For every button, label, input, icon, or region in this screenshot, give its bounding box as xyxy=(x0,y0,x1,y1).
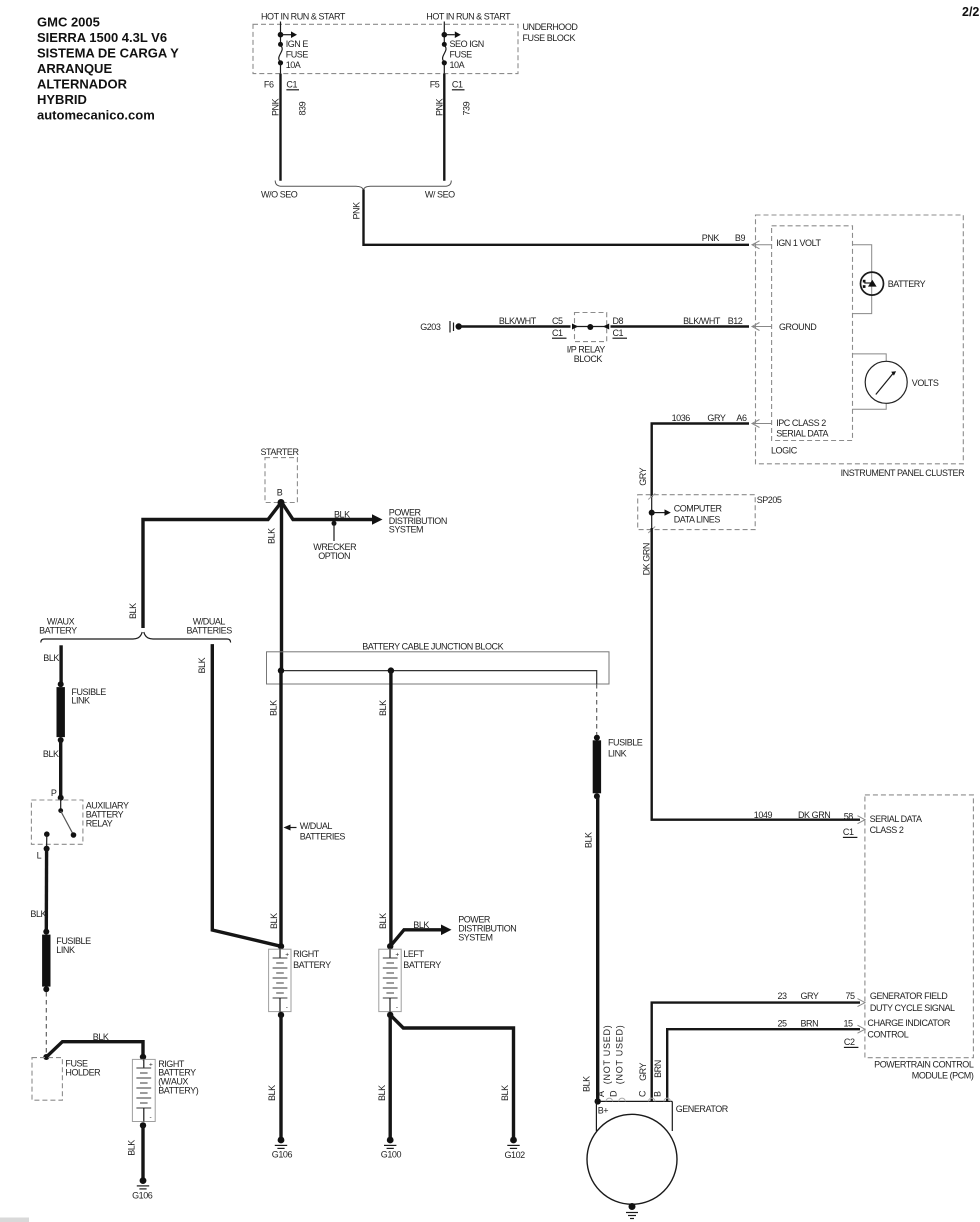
ground G102 xyxy=(505,1137,526,1160)
svg-text:D8: D8 xyxy=(613,316,624,326)
svg-text:C2: C2 xyxy=(844,1037,855,1047)
svg-text:10A: 10A xyxy=(286,60,301,70)
left battery BT2 xyxy=(379,943,441,1018)
svg-text:L: L xyxy=(37,850,42,860)
svg-text:BLK/WHT: BLK/WHT xyxy=(499,316,537,326)
svg-text:ALTERNADOR: ALTERNADOR xyxy=(37,76,128,91)
svg-text:BRN: BRN xyxy=(653,1060,663,1078)
svg-text:VOLTS: VOLTS xyxy=(912,378,939,388)
svg-text:G106: G106 xyxy=(132,1190,153,1200)
svg-text:LINK: LINK xyxy=(608,749,627,759)
svg-text:LINK: LINK xyxy=(56,945,75,955)
svg-text:IGN E: IGN E xyxy=(286,39,309,49)
wire 25 BRN 15 charge indicator control xyxy=(667,1018,951,1101)
auxiliary battery relay K1 xyxy=(31,798,129,845)
svg-text:1049: 1049 xyxy=(754,810,773,820)
ground G203 xyxy=(420,321,462,333)
ground G100 xyxy=(381,1137,402,1160)
pin F6 / connector C1 xyxy=(264,79,299,90)
dashed wire junction block to fusible link xyxy=(596,684,598,735)
svg-text:F5: F5 xyxy=(430,79,440,89)
svg-text:F6: F6 xyxy=(264,79,274,89)
svg-text:BATTERY: BATTERY xyxy=(888,279,926,289)
svg-text:PNK: PNK xyxy=(702,233,720,243)
svg-text:OPTION: OPTION xyxy=(318,551,350,561)
svg-text:DUTY CYCLE SIGNAL: DUTY CYCLE SIGNAL xyxy=(870,1003,955,1013)
wire PNK to instrument cluster xyxy=(351,190,749,245)
svg-text:GMC 2005: GMC 2005 xyxy=(37,14,100,29)
pin F5 / connector C1 xyxy=(430,79,465,90)
svg-text:CHARGE INDICATOR: CHARGE INDICATOR xyxy=(867,1018,950,1028)
svg-text:PNK: PNK xyxy=(271,98,281,116)
svg-text:25: 25 xyxy=(778,1019,788,1029)
svg-text:C1: C1 xyxy=(286,79,297,89)
generator case ground xyxy=(626,1203,638,1219)
label W/DUAL BATTERIES with arrow xyxy=(284,821,346,841)
wire BLK left battery to ground G102 xyxy=(390,1015,513,1140)
svg-text:HOT IN RUN & START: HOT IN RUN & START xyxy=(261,12,346,22)
svg-text:BLK: BLK xyxy=(334,510,350,520)
ground G106 xyxy=(272,1137,293,1160)
pin B9 input arrow IGN 1 VOLT xyxy=(752,238,821,249)
wire volts gauge to logic xyxy=(853,403,887,409)
svg-text:G106: G106 xyxy=(272,1150,293,1160)
svg-text:W/DUAL: W/DUAL xyxy=(300,821,333,831)
svg-text:SISTEMA DE CARGA Y: SISTEMA DE CARGA Y xyxy=(37,45,179,60)
fusible link F3 xyxy=(593,735,643,800)
svg-text:BLOCK: BLOCK xyxy=(574,354,603,364)
volts gauge xyxy=(865,361,939,403)
svg-text:BLK: BLK xyxy=(126,1140,136,1156)
powertrain control module box xyxy=(865,795,974,1081)
svg-text:BLK: BLK xyxy=(269,913,279,929)
wire BLK fusible link to generator B+ xyxy=(584,796,598,1101)
svg-text:10A: 10A xyxy=(450,60,465,70)
wrecker option tap xyxy=(313,521,357,561)
svg-text:G102: G102 xyxy=(505,1150,526,1160)
svg-text:ARRANQUE: ARRANQUE xyxy=(37,61,112,76)
svg-text:LEFT: LEFT xyxy=(403,949,424,959)
instrument panel cluster outer box xyxy=(756,215,966,478)
svg-text:BLK: BLK xyxy=(500,1085,510,1101)
svg-text:BLK: BLK xyxy=(268,700,278,716)
svg-text:W/O SEO: W/O SEO xyxy=(261,190,298,200)
splice SP205 computer data lines box xyxy=(638,494,782,534)
wire logic to battery lamp xyxy=(853,245,872,314)
svg-text:W/ SEO: W/ SEO xyxy=(425,190,455,200)
wire 1036 GRY to A6 xyxy=(638,413,749,497)
generator U1 xyxy=(587,1098,729,1204)
svg-text:STARTER: STARTER xyxy=(261,447,300,457)
svg-text:839: 839 xyxy=(298,101,308,115)
svg-text:DK GRN: DK GRN xyxy=(642,543,652,575)
label W/AUX BATTERY xyxy=(39,617,77,636)
svg-text:SERIAL DATA: SERIAL DATA xyxy=(776,429,828,439)
wire BLK/WHT G203 to I/P relay block xyxy=(459,316,571,338)
svg-text:(NOT USED): (NOT USED) xyxy=(602,1024,612,1084)
right battery (w/aux battery) BT3 xyxy=(132,1054,198,1129)
svg-text:BLK: BLK xyxy=(267,1085,277,1101)
svg-text:FUSE BLOCK: FUSE BLOCK xyxy=(523,33,576,43)
svg-text:BLK: BLK xyxy=(43,653,59,663)
svg-text:C: C xyxy=(637,1090,647,1097)
svg-text:BLK: BLK xyxy=(378,913,388,929)
svg-text:15: 15 xyxy=(844,1019,854,1029)
svg-text:SEO IGN: SEO IGN xyxy=(450,39,484,49)
svg-text:GRY: GRY xyxy=(638,1062,648,1080)
svg-text:BLK: BLK xyxy=(128,603,138,619)
wire PNK 839 xyxy=(271,74,308,181)
svg-text:2/2: 2/2 xyxy=(962,5,979,19)
svg-text:LINK: LINK xyxy=(71,696,90,706)
wire BLK left battery to ground G100 xyxy=(377,1015,390,1140)
svg-text:SERIAL DATA: SERIAL DATA xyxy=(870,814,922,824)
wire BLK w/dual branch xyxy=(197,644,281,946)
wire PNK 739 xyxy=(434,74,471,181)
svg-text:IGN 1 VOLT: IGN 1 VOLT xyxy=(776,238,821,248)
wire starter B to power distribution xyxy=(282,502,375,520)
svg-text:BATTERY: BATTERY xyxy=(403,960,441,970)
svg-text:CLASS 2: CLASS 2 xyxy=(870,825,904,835)
svg-text:RIGHT: RIGHT xyxy=(293,949,320,959)
svg-text:FUSIBLE: FUSIBLE xyxy=(608,738,643,748)
svg-text:BLK: BLK xyxy=(30,909,46,919)
svg-text:BLK/WHT: BLK/WHT xyxy=(683,316,721,326)
svg-text:A6: A6 xyxy=(736,413,747,423)
fusible link F2 xyxy=(42,929,91,993)
wire starter B to left branch xyxy=(143,502,282,628)
svg-text:1036: 1036 xyxy=(672,413,691,423)
svg-text:58: 58 xyxy=(844,811,854,821)
wire BLK junction block to left battery xyxy=(378,671,391,947)
svg-text:DK GRN: DK GRN xyxy=(798,810,830,820)
terminal L / wire BLK down xyxy=(30,834,49,931)
battery indicator lamp xyxy=(861,272,926,295)
svg-text:SP205: SP205 xyxy=(757,495,782,505)
svg-text:23: 23 xyxy=(778,991,788,1001)
svg-text:-: - xyxy=(150,1114,152,1121)
svg-text:-: - xyxy=(396,1004,398,1011)
wire BLK w/aux branch xyxy=(43,645,61,684)
wire BLK starter down to junction block xyxy=(267,502,282,671)
label W/DUAL BATTERIES xyxy=(187,617,233,636)
wire BLK to relay xyxy=(43,740,64,801)
fuse F6 IGN E FUSE 10A xyxy=(278,22,309,74)
svg-text:BLK: BLK xyxy=(377,1085,387,1101)
svg-text:BLK: BLK xyxy=(197,657,207,673)
svg-text:GRY: GRY xyxy=(638,467,648,485)
svg-text:CONTROL: CONTROL xyxy=(867,1030,908,1040)
svg-text:DATA LINES: DATA LINES xyxy=(674,515,721,525)
svg-text:B: B xyxy=(277,487,283,497)
svg-text:G203: G203 xyxy=(420,322,441,332)
wire BLK fuse holder to aux battery xyxy=(46,1032,143,1057)
svg-text:IPC CLASS 2: IPC CLASS 2 xyxy=(776,418,826,428)
svg-text:-: - xyxy=(286,1004,288,1011)
svg-text:HOLDER: HOLDER xyxy=(65,1068,101,1078)
svg-text:UNDERHOOD: UNDERHOOD xyxy=(523,22,579,32)
scan artifact bottom-left xyxy=(0,1218,29,1222)
svg-text:C1: C1 xyxy=(552,328,563,338)
svg-text:B: B xyxy=(652,1091,662,1097)
svg-text:BLK: BLK xyxy=(93,1032,109,1042)
svg-text:BATTERY: BATTERY xyxy=(39,626,77,636)
wire DK GRN to PCM serial data xyxy=(642,528,866,837)
svg-text:LOGIC: LOGIC xyxy=(771,446,798,456)
svg-text:BLK: BLK xyxy=(267,528,277,544)
wire BLK/WHT relay block to B12 xyxy=(611,316,750,338)
fusible link F1 xyxy=(57,681,107,743)
arrow to power distribution system xyxy=(372,514,383,525)
svg-text:B+: B+ xyxy=(598,1106,609,1116)
svg-text:automecanico.com: automecanico.com xyxy=(37,107,155,122)
PCM pin 58 SERIAL DATA CLASS 2 xyxy=(870,814,922,835)
IPC logic box xyxy=(771,226,853,456)
fuse F5 SEO IGN FUSE 10A xyxy=(442,22,484,74)
svg-text:75: 75 xyxy=(846,991,856,1001)
svg-text:BRN: BRN xyxy=(801,1019,819,1029)
starter S1 xyxy=(261,447,300,506)
wire 23 GRY 75 generator field duty cycle xyxy=(652,991,955,1101)
svg-text:P: P xyxy=(51,788,57,798)
alternative split bracket xyxy=(41,632,231,643)
right battery BT1 xyxy=(269,943,331,1018)
merge bracket junction xyxy=(275,181,451,191)
svg-text:INSTRUMENT PANEL CLUSTER: INSTRUMENT PANEL CLUSTER xyxy=(841,468,966,478)
svg-text:GRY: GRY xyxy=(707,413,725,423)
svg-text:RELAY: RELAY xyxy=(86,818,113,828)
svg-text:FUSE: FUSE xyxy=(286,50,309,60)
svg-text:BATTERY): BATTERY) xyxy=(158,1086,199,1096)
svg-text:GENERATOR: GENERATOR xyxy=(676,1104,729,1114)
ground G106 (aux battery) xyxy=(132,1177,153,1200)
svg-text:BATTERIES: BATTERIES xyxy=(187,626,233,636)
wire BLK aux battery to ground xyxy=(126,1125,143,1180)
svg-text:C5: C5 xyxy=(552,316,563,326)
svg-text:GROUND: GROUND xyxy=(779,322,817,332)
svg-text:PNK: PNK xyxy=(434,98,444,116)
pin B12 input arrow GROUND xyxy=(752,322,817,332)
svg-text:BATTERIES: BATTERIES xyxy=(300,831,346,841)
svg-text:C1: C1 xyxy=(452,79,463,89)
svg-text:MODULE (PCM): MODULE (PCM) xyxy=(912,1071,974,1081)
svg-text:BLK: BLK xyxy=(582,1076,592,1092)
svg-text:HYBRID: HYBRID xyxy=(37,92,87,107)
wire BLK right battery to ground xyxy=(267,1015,281,1140)
svg-text:B12: B12 xyxy=(728,316,743,326)
generator terminal labels xyxy=(582,1024,663,1097)
svg-text:PNK: PNK xyxy=(351,202,361,220)
dashed wire to fuse holder xyxy=(45,992,47,1054)
title block xyxy=(37,14,179,122)
svg-text:739: 739 xyxy=(461,101,471,115)
svg-text:POWERTRAIN CONTROL: POWERTRAIN CONTROL xyxy=(874,1060,974,1070)
svg-text:SIERRA 1500 4.3L V6: SIERRA 1500 4.3L V6 xyxy=(37,30,167,45)
svg-text:BLK: BLK xyxy=(43,749,59,759)
svg-text:GRY: GRY xyxy=(801,991,819,1001)
svg-text:BATTERY CABLE JUNCTION BLOCK: BATTERY CABLE JUNCTION BLOCK xyxy=(362,641,503,651)
svg-text:C1: C1 xyxy=(843,827,854,837)
fuse holder xyxy=(32,1054,101,1100)
svg-text:COMPUTER: COMPUTER xyxy=(674,504,723,514)
wire BLK left battery to power distribution xyxy=(390,915,516,947)
I/P relay block xyxy=(567,313,610,365)
svg-text:FUSE: FUSE xyxy=(450,50,473,60)
svg-text:G100: G100 xyxy=(381,1150,402,1160)
wire logic to volts gauge xyxy=(853,354,887,361)
svg-text:C1: C1 xyxy=(613,328,624,338)
svg-text:B9: B9 xyxy=(735,233,746,243)
wire BLK junction block to right battery xyxy=(268,671,281,947)
svg-text:SYSTEM: SYSTEM xyxy=(458,933,492,943)
svg-text:BLK: BLK xyxy=(413,920,429,930)
svg-text:BLK: BLK xyxy=(378,700,388,716)
svg-text:BATTERY: BATTERY xyxy=(293,960,331,970)
svg-text:BLK: BLK xyxy=(584,832,594,848)
pin A6 input arrow IPC CLASS 2 SERIAL DATA xyxy=(752,418,829,439)
underhood fuse block box xyxy=(253,22,578,74)
battery cable junction block xyxy=(267,641,610,684)
svg-text:D: D xyxy=(608,1090,618,1097)
svg-text:HOT IN RUN & START: HOT IN RUN & START xyxy=(426,12,511,22)
svg-text:I/P RELAY: I/P RELAY xyxy=(567,345,606,355)
svg-text:(NOT USED): (NOT USED) xyxy=(615,1024,625,1084)
svg-text:GENERATOR FIELD: GENERATOR FIELD xyxy=(870,991,948,1001)
svg-text:SYSTEM: SYSTEM xyxy=(389,524,423,534)
